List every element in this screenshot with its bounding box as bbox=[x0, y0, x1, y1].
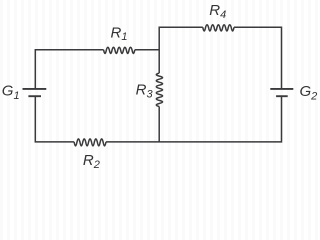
battery G1 short plate bbox=[28, 95, 41, 97]
svg-text:G2: G2 bbox=[300, 83, 318, 102]
wire middle branch upper (junction up to R4 corner, R4 branch left segment) bbox=[159, 27, 203, 50]
battery G1 long plate bbox=[23, 88, 47, 90]
resistor R1 bbox=[104, 47, 135, 53]
resistor R2 bbox=[74, 139, 106, 146]
resistor R4 bbox=[203, 25, 234, 31]
battery G2 short plate bbox=[276, 95, 288, 97]
wire middle junction down to R3 bbox=[158, 49, 160, 73]
svg-text:R1: R1 bbox=[111, 24, 128, 43]
wire bottom-right (R2 to right corner, up to G2) bbox=[106, 97, 282, 142]
wire R4 to right corner, down to G2 bbox=[234, 27, 282, 88]
wire R3 down to bottom wire bbox=[158, 107, 160, 142]
svg-text:R4: R4 bbox=[209, 2, 226, 21]
wire bottom-left (left corner to R2) bbox=[35, 97, 74, 142]
svg-text:R3: R3 bbox=[136, 81, 154, 100]
svg-text:R2: R2 bbox=[83, 152, 100, 171]
wire R1 to middle junction bbox=[135, 49, 159, 51]
resistor R3 bbox=[156, 73, 162, 106]
wire top-left horizontal (left corner to R1) bbox=[35, 50, 103, 89]
battery G2 long plate bbox=[270, 88, 293, 90]
svg-text:G1: G1 bbox=[2, 83, 20, 102]
